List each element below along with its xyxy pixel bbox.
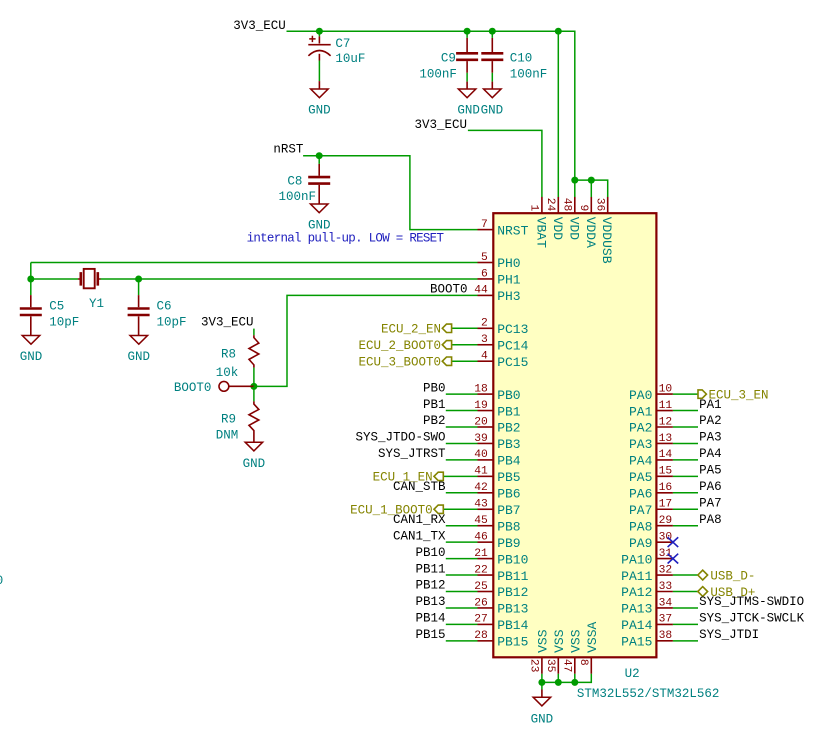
- svg-text:PB0: PB0: [497, 388, 520, 403]
- wire PA6 label: [673, 492, 698, 494]
- svg-text:GND: GND: [128, 350, 151, 364]
- svg-text:BOOT0: BOOT0: [430, 283, 468, 297]
- U2 pin 42 (PB6): [478, 492, 494, 494]
- wire PB15 to PB15: [446, 640, 478, 642]
- U2 pin 27 (PB14): [478, 623, 494, 625]
- svg-text:PA11: PA11: [621, 569, 652, 584]
- svg-text:8: 8: [577, 659, 589, 666]
- svg-text:Y1: Y1: [89, 297, 104, 311]
- wire VDD pin24 drop: [557, 31, 559, 197]
- svg-text:U2: U2: [625, 667, 640, 681]
- U2 pin 24 (VDD): [557, 197, 559, 213]
- U2 pin 20 (PB2): [478, 426, 494, 428]
- svg-text:3V3_ECU: 3V3_ECU: [415, 118, 468, 132]
- svg-text:C10: C10: [510, 51, 533, 65]
- node hierarchical label ECU_1_BOOT0: [434, 505, 443, 513]
- svg-text:PB11: PB11: [415, 562, 445, 576]
- svg-text:GND: GND: [243, 457, 266, 471]
- U2 pin 21 (PB10): [478, 558, 494, 560]
- wire CAN_STB to PB6: [446, 492, 478, 494]
- wire PB14 to PB14: [446, 623, 478, 625]
- ground below R9: [245, 442, 263, 451]
- svg-text:C5: C5: [49, 299, 64, 313]
- svg-text:PB1: PB1: [497, 404, 521, 419]
- junction top rail at C10: [489, 28, 496, 35]
- svg-text:SYS_JTDO-SWO: SYS_JTDO-SWO: [355, 431, 445, 445]
- wire PB12 to PB12: [446, 591, 478, 593]
- wire SYS_JTDO-SWO to PB3: [446, 442, 478, 444]
- ground below C6: [130, 336, 148, 345]
- svg-text:C8: C8: [287, 174, 302, 188]
- svg-text:0: 0: [0, 574, 3, 588]
- wire ECU_3_BOOT0 to PC15: [452, 360, 478, 362]
- capacitor C8 100nF: [318, 156, 320, 164]
- svg-text:48: 48: [561, 198, 573, 212]
- svg-text:10: 10: [659, 383, 673, 395]
- svg-text:PA4: PA4: [629, 454, 653, 469]
- U2 pin 3 (PC14): [478, 344, 494, 346]
- svg-text:PC15: PC15: [497, 355, 528, 370]
- svg-text:SYS_JTDI: SYS_JTDI: [699, 628, 759, 642]
- U2 pin 35 (VSS): [557, 657, 559, 674]
- svg-text:PB10: PB10: [497, 552, 528, 567]
- U2 pin 8 (VSSA): [590, 657, 592, 674]
- ground below C10: [491, 82, 493, 89]
- U2 pin 34 (PA13): [656, 607, 673, 609]
- svg-text:GND: GND: [308, 104, 331, 118]
- svg-text:PH0: PH0: [497, 256, 520, 271]
- svg-text:NRST: NRST: [497, 223, 528, 238]
- svg-text:1: 1: [528, 205, 540, 212]
- svg-text:32: 32: [659, 564, 673, 576]
- U2 pin 22 (PB11): [478, 574, 494, 576]
- U2 pin 2 (PC13): [478, 327, 494, 329]
- wire PH1 net (crystal bottom): [31, 278, 478, 280]
- svg-text:PB5: PB5: [497, 470, 520, 485]
- svg-text:PB12: PB12: [415, 579, 445, 593]
- svg-text:PB13: PB13: [415, 595, 445, 609]
- junction top rail at VDD24: [555, 28, 562, 35]
- svg-text:PC13: PC13: [497, 322, 528, 337]
- U2 pin 18 (PB0): [478, 393, 494, 395]
- U2 pin 32 (PA11): [656, 574, 673, 576]
- wire PA8 label: [673, 525, 698, 527]
- svg-text:47: 47: [561, 659, 573, 673]
- junction VSS 47: [571, 679, 578, 686]
- U2 pin 37 (PA14): [656, 623, 673, 625]
- svg-text:VDD: VDD: [566, 217, 581, 241]
- svg-text:PA1: PA1: [699, 398, 722, 412]
- wire VSS pins to ground: [541, 674, 543, 683]
- svg-text:PB3: PB3: [497, 437, 520, 452]
- svg-text:PA2: PA2: [629, 421, 652, 436]
- node hierarchical label ECU_2_EN: [442, 324, 451, 332]
- IC U2 body (STM32L552/STM32L562 microcontroller): [493, 213, 656, 657]
- svg-text:PA6: PA6: [629, 487, 652, 502]
- U2 pin 17 (PA7): [656, 508, 673, 510]
- svg-text:11: 11: [659, 400, 673, 412]
- svg-text:PB14: PB14: [415, 612, 445, 626]
- U2 pin 38 (PA15): [656, 640, 673, 642]
- junction top rail at C7: [316, 28, 323, 35]
- svg-text:PB0: PB0: [423, 381, 446, 395]
- svg-text:PH3: PH3: [497, 289, 520, 304]
- svg-text:DNM: DNM: [216, 428, 239, 442]
- no-connect PA10: [668, 554, 679, 564]
- svg-text:VDD: VDD: [550, 217, 565, 241]
- capacitor C7 polarized 10uF: [318, 31, 320, 36]
- U2 pin 13 (PA3): [656, 442, 673, 444]
- svg-text:PA2: PA2: [699, 414, 722, 428]
- svg-text:37: 37: [659, 614, 673, 626]
- U2 pin 12 (PA2): [656, 426, 673, 428]
- wire PB10 to PB10: [446, 558, 478, 560]
- svg-text:3: 3: [481, 334, 488, 346]
- svg-text:PB10: PB10: [415, 546, 445, 560]
- svg-text:2: 2: [481, 318, 488, 330]
- svg-text:nRST: nRST: [273, 142, 304, 156]
- U2 pin 19 (PB1): [478, 410, 494, 412]
- svg-text:PB15: PB15: [415, 628, 445, 642]
- svg-text:VSSA: VSSA: [585, 621, 600, 652]
- U2 pin 39 (PB3): [478, 442, 494, 444]
- svg-text:PB13: PB13: [497, 602, 528, 617]
- svg-text:PA14: PA14: [621, 618, 652, 633]
- svg-text:PB8: PB8: [497, 519, 520, 534]
- ground below C5: [22, 336, 40, 345]
- junction rail180 at 48: [571, 177, 578, 184]
- U2 pin 9 (VDDA): [590, 197, 592, 213]
- U2 pin 1 (VBAT): [541, 197, 543, 213]
- junction nRST at C8: [316, 152, 323, 159]
- svg-text:12: 12: [659, 416, 673, 428]
- wire nRST to NRST pin: [303, 156, 477, 230]
- U2 pin 5 (PH0): [478, 262, 494, 264]
- U2 pin 33 (PA12): [656, 591, 673, 593]
- U2 pin 31 (PA10): [656, 558, 673, 560]
- wire SYS_JTDI to PA15: [673, 640, 698, 642]
- svg-text:internal pull-up. LOW = RESET: internal pull-up. LOW = RESET: [247, 231, 445, 245]
- U2 pin 45 (PB8): [478, 525, 494, 527]
- resistor R8 10k: [249, 335, 259, 367]
- U2 pin 10 (PA0): [656, 393, 673, 395]
- svg-text:PA9: PA9: [629, 536, 652, 551]
- svg-text:6: 6: [481, 268, 488, 280]
- node hierarchical label ECU_2_BOOT0: [442, 341, 451, 349]
- capacitor C10 100nF: [491, 31, 493, 38]
- junction BOOT0: [250, 383, 257, 390]
- svg-text:R8: R8: [221, 348, 236, 362]
- wire rail y180 to VDDA/VDDUSB: [575, 180, 608, 197]
- no-connect PA9: [668, 537, 679, 547]
- capacitor C5 10pF: [30, 279, 32, 295]
- svg-text:PB4: PB4: [497, 454, 521, 469]
- svg-text:PA8: PA8: [699, 513, 722, 527]
- svg-text:24: 24: [544, 198, 556, 212]
- svg-text:GND: GND: [457, 104, 480, 118]
- svg-text:4: 4: [481, 351, 488, 363]
- svg-text:C7: C7: [335, 37, 350, 51]
- svg-text:ECU_3_BOOT0: ECU_3_BOOT0: [358, 356, 441, 370]
- svg-text:C6: C6: [157, 299, 172, 313]
- svg-text:VSS: VSS: [568, 629, 583, 653]
- ground below C9: [466, 82, 468, 89]
- svg-text:PA15: PA15: [621, 635, 652, 650]
- svg-text:PA5: PA5: [629, 470, 652, 485]
- svg-text:10uF: 10uF: [335, 52, 365, 66]
- wire PB0 to PB0: [446, 393, 478, 395]
- svg-text:10pF: 10pF: [49, 316, 79, 330]
- svg-text:PA4: PA4: [699, 447, 722, 461]
- svg-text:ECU_2_BOOT0: ECU_2_BOOT0: [358, 339, 441, 353]
- svg-text:C9: C9: [441, 51, 456, 65]
- junction top rail at C9: [464, 28, 471, 35]
- wire PB1 to PB1: [446, 410, 478, 412]
- U2 pin 16 (PA6): [656, 492, 673, 494]
- capacitor C6 10pF: [138, 279, 140, 295]
- svg-text:PA0: PA0: [629, 388, 652, 403]
- U2 pin 7 (NRST): [478, 229, 494, 231]
- wire PA5 label: [673, 475, 698, 477]
- svg-text:3V3_ECU: 3V3_ECU: [201, 316, 254, 330]
- svg-text:7: 7: [481, 219, 488, 231]
- svg-text:PA7: PA7: [699, 496, 722, 510]
- svg-text:10pF: 10pF: [157, 316, 187, 330]
- svg-text:CAN1_RX: CAN1_RX: [393, 513, 446, 527]
- wire PA7 label: [673, 508, 698, 510]
- U2 pin 6 (PH1): [478, 278, 494, 280]
- svg-text:PH1: PH1: [497, 273, 521, 288]
- wire 3V3_ECU top rail: [287, 31, 575, 197]
- wire PH0 net (crystal top): [31, 263, 478, 280]
- svg-text:PA10: PA10: [621, 552, 652, 567]
- U2 pin 46 (PB9): [478, 541, 494, 543]
- wire PA4 label: [673, 459, 698, 461]
- capacitor C9 100nF: [466, 31, 468, 38]
- svg-text:BOOT0: BOOT0: [174, 381, 212, 395]
- svg-text:PC14: PC14: [497, 338, 528, 353]
- wire BOOT0 net to PH3: [254, 295, 478, 386]
- svg-text:PA8: PA8: [629, 519, 652, 534]
- junction VSS 35: [555, 679, 562, 686]
- U2 pin 25 (PB12): [478, 591, 494, 593]
- svg-text:ECU_2_EN: ECU_2_EN: [381, 323, 441, 337]
- svg-text:PB2: PB2: [423, 414, 446, 428]
- wire USB_D+ to PA12: [673, 591, 698, 593]
- svg-text:PA7: PA7: [629, 503, 652, 518]
- junction VSS 23: [538, 679, 545, 686]
- svg-text:PB7: PB7: [497, 503, 520, 518]
- svg-text:PA3: PA3: [629, 437, 652, 452]
- svg-text:VSS: VSS: [535, 629, 550, 653]
- U2 pin 30 (PA9): [656, 541, 673, 543]
- wire SYS_JTMS-SWDIO to PA13: [673, 607, 698, 609]
- wire PA3 label: [673, 442, 698, 444]
- U2 pin 36 (VDDUSB): [607, 197, 609, 213]
- U2 pin 15 (PA5): [656, 475, 673, 477]
- svg-text:PB12: PB12: [497, 585, 528, 600]
- ground below C7: [318, 81, 320, 89]
- wire VDDA pin9 drop: [590, 180, 592, 197]
- U2 pin 28 (PB15): [478, 640, 494, 642]
- ground below VSS: [541, 690, 543, 698]
- resistor R9 DNM: [253, 386, 255, 401]
- svg-text:16: 16: [659, 482, 673, 494]
- svg-text:29: 29: [659, 515, 673, 527]
- svg-text:PB11: PB11: [497, 569, 528, 584]
- svg-text:PB6: PB6: [497, 487, 520, 502]
- svg-text:PB15: PB15: [497, 635, 528, 650]
- wire SYS_JTCK-SWCLK to PA14: [673, 623, 698, 625]
- junction rail180 at 9: [588, 177, 595, 184]
- node hierarchical label ECU_1_EN: [434, 472, 443, 480]
- svg-text:PA12: PA12: [621, 585, 652, 600]
- svg-text:23: 23: [528, 659, 540, 673]
- svg-text:PB9: PB9: [497, 536, 520, 551]
- svg-text:10k: 10k: [216, 366, 239, 380]
- svg-text:R9: R9: [221, 413, 236, 427]
- U2 pin 4 (PC15): [478, 360, 494, 362]
- svg-text:VBAT: VBAT: [533, 217, 548, 248]
- svg-text:17: 17: [659, 499, 673, 511]
- svg-text:PA5: PA5: [699, 464, 722, 478]
- svg-text:SYS_JTMS-SWDIO: SYS_JTMS-SWDIO: [699, 595, 804, 609]
- U2 pin 43 (PB7): [478, 508, 494, 510]
- svg-text:USB_D-: USB_D-: [710, 569, 755, 583]
- svg-text:33: 33: [659, 581, 673, 593]
- svg-text:PB1: PB1: [423, 398, 446, 412]
- wire ECU_1_BOOT0 to PB7: [443, 508, 477, 510]
- wire 3V3_ECU to R8: [253, 329, 255, 336]
- ground below C8: [310, 204, 328, 213]
- svg-text:STM32L552/STM32L562: STM32L552/STM32L562: [577, 687, 720, 701]
- crystal Y1: [78, 278, 101, 280]
- svg-text:15: 15: [659, 466, 673, 478]
- svg-text:100nF: 100nF: [419, 68, 457, 82]
- U2 pin 23 (VSS): [541, 657, 543, 674]
- svg-text:VSS: VSS: [552, 629, 567, 653]
- wire ECU_2_BOOT0 to PC14: [452, 344, 478, 346]
- node hierarchical label USB_D+ (bidirectional): [698, 587, 708, 597]
- wire ECU_1_EN to PB5: [443, 475, 477, 477]
- svg-text:CAN_STB: CAN_STB: [393, 480, 446, 494]
- svg-text:34: 34: [659, 597, 673, 609]
- wire USB_D- to PA11: [673, 574, 698, 576]
- svg-text:100nF: 100nF: [278, 190, 316, 204]
- U2 pin 48 (VDD): [574, 197, 576, 213]
- svg-text:GND: GND: [481, 104, 504, 118]
- svg-text:CAN1_TX: CAN1_TX: [393, 529, 446, 543]
- svg-text:38: 38: [659, 630, 673, 642]
- wire PB11 to PB11: [446, 574, 478, 576]
- svg-text:31: 31: [659, 548, 673, 560]
- svg-text:PA3: PA3: [699, 431, 722, 445]
- svg-text:100nF: 100nF: [510, 68, 548, 82]
- svg-text:PA13: PA13: [621, 602, 652, 617]
- wire PA2 label: [673, 426, 698, 428]
- node hierarchical label ECU_3_BOOT0: [442, 357, 451, 365]
- wire CAN1_RX to PB8: [446, 525, 478, 527]
- svg-text:PA6: PA6: [699, 480, 722, 494]
- wire CAN1_TX to PB9: [446, 541, 478, 543]
- svg-text:5: 5: [481, 252, 488, 264]
- svg-text:GND: GND: [531, 712, 554, 726]
- U2 pin 14 (PA4): [656, 459, 673, 461]
- svg-text:VDDUSB: VDDUSB: [599, 217, 614, 264]
- svg-text:13: 13: [659, 433, 673, 445]
- U2 pin 47 (VSS): [574, 657, 576, 674]
- svg-text:36: 36: [594, 198, 606, 212]
- svg-text:30: 30: [659, 531, 673, 543]
- wire PA1 label: [673, 410, 698, 412]
- svg-text:PB14: PB14: [497, 618, 528, 633]
- U2 pin 26 (PB13): [478, 607, 494, 609]
- U2 pin 29 (PA8): [656, 525, 673, 527]
- svg-text:SYS_JTCK-SWCLK: SYS_JTCK-SWCLK: [699, 612, 805, 626]
- svg-text:PB2: PB2: [497, 421, 520, 436]
- svg-text:SYS_JTRST: SYS_JTRST: [378, 447, 446, 461]
- wire PB13 to PB13: [446, 607, 478, 609]
- U2 pin 41 (PB5): [478, 475, 494, 477]
- wire PB2 to PB2: [446, 426, 478, 428]
- node hierarchical label ECU_3_EN: [698, 390, 706, 398]
- node hierarchical label USB_D- (bidirectional): [698, 570, 708, 580]
- svg-text:9: 9: [577, 205, 589, 212]
- wire ECU_2_EN to PC13: [452, 327, 478, 329]
- wire ECU_3_EN to PA0: [673, 393, 698, 395]
- svg-text:14: 14: [659, 449, 673, 461]
- svg-text:3V3_ECU: 3V3_ECU: [233, 19, 286, 33]
- svg-text:GND: GND: [20, 350, 43, 364]
- junction crystal left: [27, 276, 34, 283]
- svg-text:PA1: PA1: [629, 404, 653, 419]
- U2 pin 11 (PA1): [656, 410, 673, 412]
- svg-text:VDDA: VDDA: [583, 217, 598, 248]
- U2 pin 44 (PH3): [478, 294, 494, 296]
- junction crystal right: [135, 276, 142, 283]
- U2 pin 40 (PB4): [478, 459, 494, 461]
- wire 3V3_ECU to VBAT pin1: [468, 130, 542, 197]
- svg-text:35: 35: [544, 659, 556, 673]
- wire SYS_JTRST to PB4: [446, 459, 478, 461]
- wire R8 to BOOT0 junction: [253, 368, 255, 387]
